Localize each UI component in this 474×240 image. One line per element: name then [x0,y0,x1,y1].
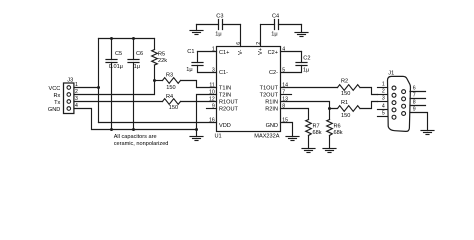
wire J1 pin5 stub [378,116,388,118]
svg-text:3: 3 [212,67,215,73]
wire R4 to R1OUT pin12 [181,101,217,103]
svg-text:R4: R4 [166,94,173,100]
junction dot C6 bottom [132,128,135,131]
svg-text:4: 4 [382,104,385,110]
ground symbol R6 [323,148,336,150]
wire Rx J3 pin2 to riser up to R3 node [74,81,155,95]
ground symbol C4 [301,25,303,33]
wire J1 pin6 stub [410,91,426,93]
svg-text:C5: C5 [115,51,122,57]
wire V- pin6 riser [240,25,242,47]
svg-text:8: 8 [413,100,416,106]
svg-text:1μ: 1μ [271,32,277,38]
resistor R4 150 [163,99,181,105]
svg-text:150: 150 [341,113,350,119]
wire J1 pin3 stub [378,101,388,103]
svg-text:T1IN: T1IN [219,86,231,92]
capacitor C4 [261,24,275,26]
junction dot R1 R6 node [328,107,331,110]
svg-text:1: 1 [212,46,215,52]
svg-text:T1OUT: T1OUT [260,86,279,92]
svg-text:R2: R2 [341,79,348,85]
connector J3 body [64,83,74,114]
wire V+ pin2 riser [260,25,262,47]
svg-text:6: 6 [413,86,416,92]
svg-text:2: 2 [382,89,385,95]
wire J1 pin9 to ground [410,113,428,131]
resistor R1 150 [330,106,361,112]
svg-text:13: 13 [282,96,288,102]
wire J1 pin7 stub [410,98,426,100]
junction dot C5 bottom [110,128,113,131]
svg-text:R1: R1 [341,100,348,106]
svg-text:C1+: C1+ [219,50,229,56]
wire R1IN pin13 to junction [281,102,330,109]
wire T1OUT pin14 to R2 [281,87,338,89]
svg-text:7: 7 [413,93,416,99]
svg-text:5: 5 [282,67,285,73]
ground symbol C3 [196,25,198,31]
svg-text:R2IN: R2IN [265,107,278,113]
wire T2OUT stub pin7 [281,94,292,96]
svg-text:6: 6 [236,42,242,45]
svg-text:1μ: 1μ [134,64,140,70]
ground symbol pin15 [286,136,299,138]
svg-text:T2IN: T2IN [219,93,231,99]
svg-text:2: 2 [256,42,262,45]
svg-text:R5: R5 [158,51,165,57]
svg-text:GND: GND [266,123,278,129]
junction dot ground rail end [195,128,198,131]
svg-text:5: 5 [382,111,385,117]
svg-text:8: 8 [282,103,285,109]
ground symbol R7 [302,148,315,150]
wire R2 to J1 pin2 [360,88,378,95]
wire J1 pin1 stub [378,87,388,89]
capacitor C2 [281,51,302,53]
svg-text:All capacitors are: All capacitors are [114,134,157,140]
svg-text:C6: C6 [136,51,143,57]
capacitor C1 [198,51,217,53]
svg-text:R1OUT: R1OUT [219,100,239,106]
wire R2IN pin8 to R7 [281,109,309,120]
junction dot C6 top [132,37,135,40]
svg-text:10: 10 [209,89,215,95]
svg-text:7: 7 [282,89,285,95]
svg-text:GND: GND [48,107,60,113]
svg-text:68k: 68k [313,130,322,136]
svg-text:V-: V- [238,49,244,54]
svg-text:15: 15 [282,117,288,123]
connector J3 pin circles [67,86,71,111]
svg-text:14: 14 [282,82,288,88]
wire R1 to J1 pin3 [360,102,378,109]
svg-text:3: 3 [382,96,385,102]
svg-text:R1IN: R1IN [265,100,278,106]
wire Tx J3 pin3 to R4 [74,101,163,103]
svg-text:2: 2 [75,89,78,95]
svg-text:R2OUT: R2OUT [219,107,239,113]
wire R2OUT stub pin9 [207,108,217,110]
svg-text:3: 3 [75,96,78,102]
svg-text:1μ: 1μ [303,67,309,73]
capacitor C3 [197,24,219,26]
svg-text:T2OUT: T2OUT [260,93,279,99]
connector J1 left pin circles [392,86,396,119]
connector J1 right pin circles [402,90,406,116]
junction dot R5 bottom node [153,79,156,82]
wire top VCC rail [99,38,155,40]
svg-text:VCC: VCC [48,86,60,92]
svg-text:V+: V+ [258,48,264,55]
wire J1 pin4 stub [378,109,388,111]
svg-text:R3: R3 [166,73,173,79]
resistor R3 150 [155,80,163,82]
wire GND pin15 [281,123,293,137]
connector J1 DB9 shell [388,76,411,131]
svg-text:Tx: Tx [54,100,60,106]
svg-text:VDD: VDD [219,123,231,129]
svg-text:12: 12 [209,96,215,102]
svg-text:U1: U1 [215,134,222,140]
svg-text:C2-: C2- [269,70,278,76]
wire R3 to T1IN pin11 [181,81,217,88]
svg-text:ceramic, nonpolarized: ceramic, nonpolarized [114,141,169,147]
ground symbol J1 [421,130,434,132]
junction dot VCC junction [97,86,100,89]
svg-text:150: 150 [169,105,178,111]
svg-text:22k: 22k [158,58,167,64]
svg-text:1μ: 1μ [186,67,192,73]
svg-text:68k: 68k [334,130,343,136]
resistor R7 68k [306,120,312,136]
svg-text:1: 1 [382,82,385,88]
resistor R6 68k [329,109,331,120]
capacitor C6 [133,39,135,60]
svg-text:4: 4 [75,103,78,109]
svg-text:MAX232A: MAX232A [254,134,279,140]
wire GND J3 pin4 to bottom rail [74,109,197,130]
svg-text:11: 11 [209,82,214,88]
svg-text:Rx: Rx [53,93,60,99]
svg-text:C4: C4 [272,13,279,19]
svg-text:R6: R6 [334,123,341,129]
svg-text:C1-: C1- [219,70,228,76]
svg-text:R7: R7 [313,123,320,129]
svg-text:C2: C2 [303,55,310,61]
svg-text:9: 9 [212,103,215,109]
wire VCC vertical rail [98,39,100,123]
capacitor C5 [111,39,113,60]
svg-text:150: 150 [166,85,175,91]
resistor R5 22k [154,39,156,50]
svg-text:C3: C3 [216,13,223,19]
svg-text:C2+: C2+ [268,50,278,56]
wire T2IN pin10 tie to ground rail [197,95,217,130]
svg-text:0.01μ: 0.01μ [109,64,123,70]
svg-text:1μ: 1μ [215,32,221,38]
svg-text:1: 1 [75,82,78,88]
svg-text:J1: J1 [388,71,394,77]
svg-text:150: 150 [341,91,350,97]
svg-text:16: 16 [209,117,215,123]
wire J1 pin8 stub [410,105,426,107]
wire VDD rail to pin16 [99,122,217,124]
wire J1 pin2 stub [378,94,388,96]
svg-text:C1: C1 [187,49,194,55]
junction dot C5 top [110,37,113,40]
ground symbol main rail [196,130,198,137]
svg-text:4: 4 [282,46,285,52]
wire VCC J3 pin1 to junction [74,87,99,89]
svg-text:J3: J3 [67,78,73,84]
svg-text:9: 9 [413,107,416,113]
resistor R2 150 [338,85,361,91]
op-amp U1 MAX232A body [217,47,281,132]
